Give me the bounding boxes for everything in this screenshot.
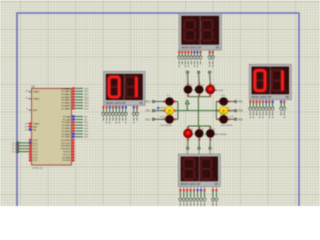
U1 pin 15 P3.5/T1 — [72, 154, 75, 156]
LED D7 LED-RED — [160, 95, 176, 109]
U1 pin 18 XTAL2 — [28, 98, 31, 100]
U1 pin 3 P1.2 — [29, 145, 32, 147]
svg-text:P2.3/A11: P2.3/A11 — [62, 124, 71, 127]
terminal P12 with wire to LED — [152, 118, 154, 120]
left display common pin 1 — [133, 105, 135, 107]
svg-text:VB: VB — [215, 46, 219, 50]
left display pin dp terminal P0.7 — [125, 105, 127, 107]
top display pin f terminal P2.5 — [193, 50, 195, 53]
LED D6 LED-GREEN — [206, 127, 227, 141]
svg-text:P2.1/A9: P2.1/A9 — [63, 118, 71, 121]
U1 pin 13 P3.3/INT1 — [72, 148, 75, 150]
left display pin c terminal P0.2 — [109, 105, 111, 107]
left display pin f terminal P0.5 — [118, 105, 120, 107]
U1 pin 32 P0.7/AD7 with wire to net AD7 — [72, 107, 76, 109]
svg-text:P12: P12 — [146, 118, 151, 121]
svg-text:P1.3: P1.3 — [33, 149, 38, 151]
U1 pin 35 P0.4/AD4 with wire to net AD4 — [72, 99, 76, 101]
7-segment display bottom (off) — [178, 154, 220, 186]
bottom display common pin 2 — [215, 187, 217, 190]
U1 pin 1 P1.0 — [29, 139, 32, 141]
wire top LED bus — [188, 96, 210, 98]
wire bus to LED D5 anode — [198, 126, 200, 128]
svg-text:P11: P11 — [146, 110, 151, 113]
node junction above LED D2 — [198, 71, 200, 73]
svg-text:P0.1/AD1: P0.1/AD1 — [61, 90, 71, 93]
7-segment display top (off) — [179, 14, 221, 51]
svg-text:P3.6/WR: P3.6/WR — [62, 157, 71, 159]
svg-text:P3.7/RD: P3.7/RD — [62, 160, 70, 162]
svg-text:VB: VB — [214, 182, 218, 186]
wire bus to LED D6 anode — [209, 126, 211, 128]
7-segment display left (01) — [104, 72, 146, 106]
svg-text:P14: P14 — [238, 110, 243, 113]
right display pin c terminal P0.2 — [256, 100, 258, 102]
U1 pin 37 P0.2/AD2 with wire to net AD2 — [72, 93, 76, 95]
U1 pin 33 P0.6/AD6 with wire to net AD6 — [72, 105, 76, 107]
wire to LED D1 anode — [187, 74, 189, 84]
U1 pin 24 P2.3/A11 with wire to net A11 — [72, 124, 76, 126]
svg-text:VB: VB — [139, 101, 143, 105]
svg-text:P1.0: P1.0 — [33, 140, 38, 142]
svg-text:P2.2/A10: P2.2/A10 — [62, 121, 71, 124]
LED D4 LED-RED — [183, 127, 202, 141]
svg-text:P15: P15 — [238, 118, 243, 121]
wire right column bus — [215, 102, 217, 120]
svg-text:U1: U1 — [32, 84, 36, 88]
node junction below LED D4 — [187, 147, 189, 149]
svg-text:P2.6/A14: P2.6/A14 — [62, 133, 71, 136]
svg-text:P1.2: P1.2 — [33, 146, 38, 148]
LED D5 LED-YELLOW — [195, 127, 217, 141]
svg-text:AT89C51: AT89C51 — [32, 166, 43, 170]
svg-text:PSEN: PSEN — [33, 124, 39, 126]
logic probe blue dot — [157, 107, 159, 109]
left display pin g terminal P0.6 — [122, 105, 124, 107]
left display pin a terminal P0.0 — [102, 105, 104, 107]
svg-text:XTAL1: XTAL1 — [33, 91, 40, 94]
U1 pin 34 P0.5/AD5 with wire to net AD5 — [72, 102, 76, 104]
wire LED D1 cathode to bus — [187, 95, 189, 97]
wire LED D4 cathode to display — [187, 139, 189, 147]
node junction above LED D3 — [209, 71, 211, 73]
left display common pin 2 — [136, 105, 138, 107]
wire bus to LED D4 anode — [187, 126, 189, 128]
U1 pin 38 P0.1/AD1 with wire to net AD1 — [72, 90, 76, 92]
7-segment display right (01) — [249, 64, 291, 99]
U1 pin 25 P2.4/A12 with wire to net A12 — [72, 127, 76, 129]
U1 pin 29 PSEN — [28, 123, 32, 125]
U1 pin 9 RST — [28, 109, 31, 111]
svg-text:P2.7/A15: P2.7/A15 — [62, 136, 71, 139]
U1 pin 17 P3.7/RD — [72, 159, 75, 161]
U1 pin 19 XTAL1 — [28, 91, 31, 93]
bottom display pin a terminal P2.0 — [179, 187, 181, 190]
U1 pin 26 P2.5/A13 with wire to net A13 — [72, 130, 76, 132]
svg-text:MDSP-CEFG DP: MDSP-CEFG DP — [251, 95, 271, 99]
svg-text:P0.7/AD7: P0.7/AD7 — [61, 107, 71, 110]
svg-text:MDSP-CEFG DP: MDSP-CEFG DP — [181, 46, 201, 50]
U1 pin 10 P3.0/RXD — [72, 139, 75, 141]
left display pin b terminal P0.1 — [106, 105, 108, 107]
U1 pin 5 P1.4 — [29, 151, 32, 153]
left display pin e terminal P0.4 — [115, 105, 117, 107]
bottom display pin g terminal P2.6 — [200, 187, 202, 190]
svg-text:P1.4: P1.4 — [33, 152, 38, 154]
svg-text:VB: VB — [285, 95, 289, 99]
U1 pin 28 P2.7/A15 with wire to net A15 — [72, 136, 76, 138]
LED D1 LED-RED — [184, 83, 202, 97]
right display pin a terminal P0.0 — [249, 100, 251, 102]
bottom display pin e terminal P2.4 — [193, 187, 195, 190]
svg-text:P0.4/AD4: P0.4/AD4 — [61, 99, 71, 102]
svg-text:LED-GREEN: LED-GREEN — [221, 125, 233, 127]
U1 pin 8 P1.7 — [29, 159, 32, 161]
LED D10 LED-RED — [217, 95, 230, 109]
svg-text:P1.5: P1.5 — [33, 154, 38, 156]
wire bottom LED bus — [188, 125, 210, 127]
svg-text:P13: P13 — [238, 101, 243, 104]
U1 pin 21 P2.0/A8 with wire to net A8 — [72, 116, 76, 118]
svg-text:P0.2/AD2: P0.2/AD2 — [61, 93, 71, 96]
LED D9 LED-GREEN — [160, 113, 176, 127]
MCU U1 AT89C51 — [12, 84, 89, 170]
terminal P15 with wire from LED — [216, 118, 218, 120]
LED D8 LED-YELLOW — [160, 104, 176, 118]
svg-text:P2.0/A8: P2.0/A8 — [63, 115, 71, 118]
wire to LED D3 anode — [209, 74, 212, 84]
svg-text:P3.0/RXD: P3.0/RXD — [61, 140, 71, 142]
U1 pin 14 P3.4/T0 — [72, 151, 75, 153]
LED D2 LED-YELLOW — [195, 83, 217, 97]
top display pin a terminal P2.0 — [178, 50, 180, 53]
U1 pin 4 P1.3 — [29, 148, 32, 150]
U1 pin 30 ALE — [28, 126, 32, 128]
wire left column bus — [177, 102, 179, 120]
top display pin d terminal P2.3 — [187, 50, 189, 53]
right display common pin 1 — [280, 100, 282, 102]
power terminal — [186, 104, 188, 111]
U1 pin 23 P2.2/A10 with wire to net A10 — [72, 121, 76, 123]
svg-text:LED-GREEN: LED-GREEN — [215, 134, 227, 136]
svg-text:P10: P10 — [146, 101, 151, 104]
svg-text:P1.7: P1.7 — [33, 160, 38, 162]
right display pin b terminal P0.1 — [252, 100, 254, 102]
bottom display pin dp terminal P2.7 — [203, 187, 205, 190]
svg-text:P2.5/A13: P2.5/A13 — [62, 130, 71, 133]
right display common pin 2 — [283, 100, 285, 102]
svg-text:P0.3/AD3: P0.3/AD3 — [61, 96, 71, 99]
U1 pin 12 P3.2/INT0 — [72, 145, 75, 147]
LED D3 LED-RED — [205, 83, 224, 97]
svg-text:P0.0/AD0: P0.0/AD0 — [61, 87, 71, 90]
terminal P14 with wire from LED — [216, 110, 218, 112]
bottom display pin d terminal P2.3 — [190, 187, 192, 190]
bottom display common pin 1 — [212, 187, 214, 190]
right display pin f terminal P0.5 — [265, 100, 267, 102]
U1 pin 2 P1.1 — [29, 142, 32, 144]
LED D12 LED-GREEN — [217, 113, 232, 127]
top display pin b terminal P2.1 — [181, 50, 183, 53]
U1 pin 39 P0.0/AD0 with wire to net AD0 — [72, 87, 76, 89]
svg-text:P0.6/AD6: P0.6/AD6 — [61, 104, 71, 107]
wire to LED D2 anode — [198, 74, 201, 84]
node junction above LED D1 — [187, 71, 189, 73]
terminal P10 with wire to LED — [152, 100, 154, 102]
right display pin e terminal P0.4 — [262, 100, 264, 102]
U1 pin 27 P2.6/A14 with wire to net A14 — [72, 133, 76, 135]
bottom display pin c terminal P2.2 — [186, 187, 188, 190]
top display common pin 2 — [212, 50, 214, 53]
svg-text:MDSP-CEFG DP: MDSP-CEFG DP — [181, 182, 201, 186]
svg-text:P3.5/T1: P3.5/T1 — [63, 154, 71, 156]
svg-text:RST: RST — [33, 110, 38, 112]
svg-text:P1.6: P1.6 — [33, 157, 38, 159]
svg-text:P3.4/T0: P3.4/T0 — [63, 152, 71, 154]
svg-text:P3.2/INT0: P3.2/INT0 — [61, 146, 71, 148]
node junction below LED D6 — [209, 147, 211, 149]
wire center vertical — [197, 97, 199, 126]
svg-text:LED-GREEN: LED-GREEN — [160, 125, 172, 127]
terminal P11 with wire to LED — [152, 110, 154, 112]
LED D11 LED-YELLOW — [217, 104, 233, 118]
wire middle horizontal — [178, 110, 216, 112]
U1 pin 11 P3.1/TXD — [72, 142, 75, 144]
top display common pin 1 — [209, 50, 211, 53]
svg-text:ALE: ALE — [33, 126, 38, 129]
wire LED D6 cathode to display — [209, 139, 211, 147]
node junction below LED D5 — [198, 147, 200, 149]
top display pin dp terminal P2.7 — [199, 50, 201, 53]
U1 pin 16 P3.6/WR — [72, 156, 75, 158]
U1 pin 7 P1.6 — [29, 156, 32, 158]
wire LED D5 cathode to display — [198, 139, 200, 147]
bottom display pin f terminal P2.5 — [197, 187, 199, 190]
wire LED D3 cathode to bus — [209, 95, 211, 97]
top display pin g terminal P2.6 — [196, 50, 198, 53]
svg-text:P3.1/TXD: P3.1/TXD — [61, 143, 71, 145]
U1 pin 36 P0.3/AD3 with wire to net AD3 — [72, 96, 76, 98]
terminal P13 with wire from LED — [216, 101, 218, 103]
svg-text:P0.5/AD5: P0.5/AD5 — [61, 102, 71, 105]
svg-text:P3.3/INT1: P3.3/INT1 — [61, 149, 71, 151]
svg-text:P1.1: P1.1 — [33, 143, 38, 145]
right display pin d terminal P0.3 — [259, 100, 261, 102]
svg-text:MDSP-CEFG DP: MDSP-CEFG DP — [106, 101, 126, 105]
svg-text:P2.4/A12: P2.4/A12 — [62, 127, 71, 130]
right display pin g terminal P0.6 — [268, 100, 270, 102]
U1 pin 31 EA — [28, 129, 32, 131]
wire LED D2 cathode to bus — [198, 95, 200, 97]
U1 pin 22 P2.1/A9 with wire to net A9 — [72, 118, 76, 120]
left display pin d terminal P0.3 — [112, 105, 114, 107]
top display pin c terminal P2.2 — [184, 50, 186, 53]
svg-text:LED-RED: LED-RED — [215, 90, 224, 92]
bottom display pin b terminal P2.1 — [183, 187, 185, 190]
svg-text:XTAL2: XTAL2 — [33, 98, 40, 101]
U1 pin 6 P1.5 — [29, 154, 32, 156]
top display pin e terminal P2.4 — [190, 50, 192, 53]
right display pin dp terminal P0.7 — [272, 100, 274, 102]
